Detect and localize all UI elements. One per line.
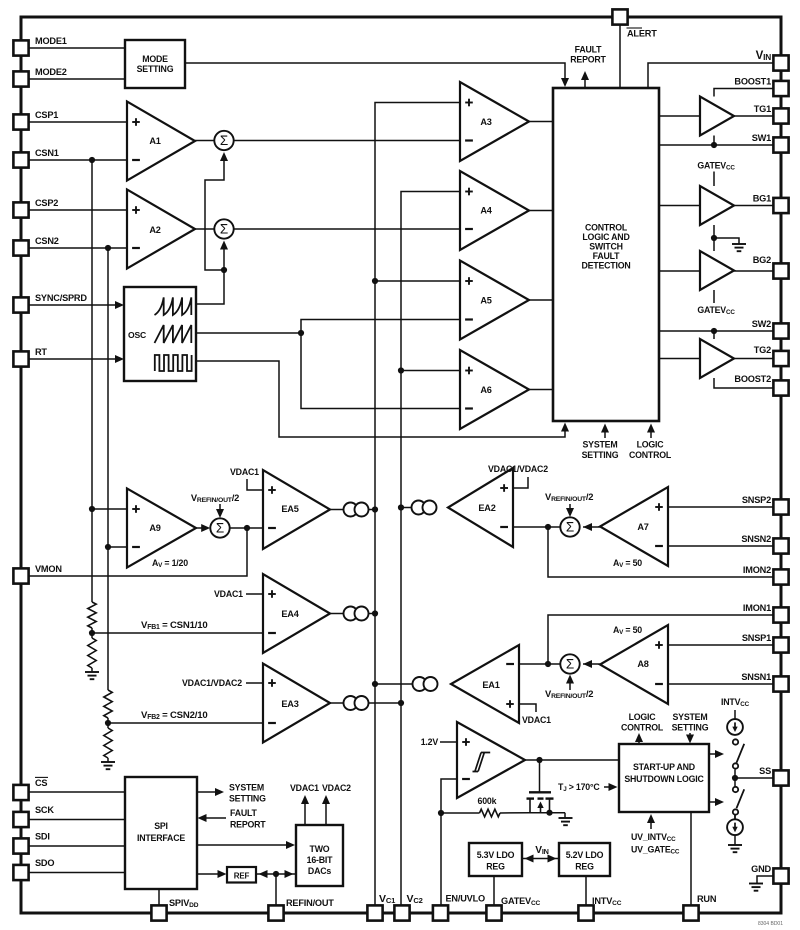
svg-text:AV = 50: AV = 50	[613, 558, 642, 569]
block MODE SETTING	[125, 40, 185, 88]
wire TG2 out	[734, 358, 773, 360]
svg-text:EA5: EA5	[281, 504, 298, 514]
pin SNSP1	[773, 637, 788, 652]
wire vref arrow into S9	[219, 504, 221, 515]
pin SNSN2	[773, 538, 788, 553]
wire VFB1 to EA4 -	[92, 632, 263, 634]
wire EA2 to VC2	[401, 507, 412, 509]
wire arrow into S2	[223, 243, 225, 270]
wire REF to DACs bidirectional	[256, 873, 296, 875]
wire SPIVDD	[158, 889, 160, 905]
wire to ground	[91, 668, 93, 672]
svg-text:AV = 50: AV = 50	[613, 625, 642, 636]
ground gate drivers	[732, 243, 746, 245]
gate driver TG1	[700, 97, 734, 136]
pin SS	[773, 770, 788, 785]
wire CSP1 to A1 +	[28, 121, 127, 123]
svg-text:A6: A6	[480, 385, 491, 395]
wire intvcc stem	[734, 710, 736, 719]
pin CSN1	[13, 152, 28, 167]
svg-text:EN/UVLO: EN/UVLO	[446, 894, 485, 904]
oscillator OSC box	[124, 287, 196, 381]
summer S7	[560, 517, 579, 536]
node REFIN/OUT junction	[273, 871, 279, 877]
wire start-up to SS switch top	[709, 753, 721, 755]
svg-text:A2: A2	[149, 225, 160, 235]
pin BG1	[773, 198, 788, 213]
wire VMON feedback to A9 summing node	[28, 528, 247, 576]
svg-text:5.3V LDO: 5.3V LDO	[477, 850, 515, 860]
wire RUN to start-up logic	[690, 812, 692, 905]
gm output stage EA3	[344, 696, 358, 710]
node ramp feedback junction	[221, 267, 227, 273]
wire REFIN/OUT to pin	[275, 874, 277, 905]
svg-text:AV = 1/20: AV = 1/20	[152, 558, 188, 569]
wire SNSP1 to A8 +	[668, 644, 773, 646]
current source SS charge	[727, 719, 743, 735]
svg-text:INTERFACE: INTERFACE	[137, 833, 185, 843]
wire EA5 out	[330, 509, 344, 511]
svg-text:IMON2: IMON2	[743, 565, 771, 575]
switch SS charge	[733, 739, 738, 744]
svg-text:CSN1: CSN1	[35, 148, 59, 158]
node SW2 junction	[711, 328, 717, 334]
wire A4 out	[529, 210, 553, 212]
error amp EA4	[263, 574, 330, 653]
wire SPI to REF	[197, 873, 224, 875]
hysteresis symbol	[473, 753, 491, 772]
svg-text:SCK: SCK	[35, 805, 54, 815]
node SS junction	[732, 775, 738, 781]
svg-text:CONTROL: CONTROL	[621, 723, 664, 733]
error amp EA3	[263, 664, 330, 743]
wire A5 out	[529, 299, 553, 301]
ground SS discharge	[728, 844, 742, 846]
wire VDAC2 arrow up	[325, 798, 327, 825]
svg-text:FAULT: FAULT	[593, 251, 621, 261]
wire SS to pin	[735, 777, 773, 779]
wire MODE2 to mode setting box	[28, 78, 125, 80]
node ramp2 junction	[298, 330, 304, 336]
wire TG1 driver bottom to SW1	[713, 136, 715, 146]
svg-text:CONTROL: CONTROL	[629, 450, 672, 460]
wire logic control arrow	[650, 426, 652, 438]
EA1 input signs	[506, 663, 514, 665]
ground MOSFET	[559, 817, 573, 819]
svg-text:EA1: EA1	[482, 680, 499, 690]
svg-text:TG2: TG2	[754, 345, 771, 355]
svg-text:GND: GND	[751, 864, 771, 874]
gm output stage EA4	[344, 607, 358, 621]
wire S2 out to A4 -	[234, 228, 460, 230]
wire VDAC1 arrow up	[304, 798, 306, 825]
pin CSN2	[13, 240, 28, 255]
wire control to BG2 driver	[659, 270, 700, 272]
svg-text:A1: A1	[149, 136, 160, 146]
sense amp A7	[600, 487, 668, 566]
svg-text:RUN: RUN	[697, 894, 717, 904]
wire CSP2 to A2 +	[28, 209, 127, 211]
wire A9 + input	[92, 508, 127, 510]
wire LDO bidirectional	[522, 858, 559, 860]
wire mode setting to control logic	[185, 63, 565, 84]
gm output stage EA2	[412, 501, 426, 515]
wire comparator out to start-up logic	[525, 759, 619, 761]
error amp EA1	[451, 645, 519, 723]
wire A3 out	[529, 121, 553, 123]
svg-text:SDO: SDO	[35, 858, 54, 868]
wire GATEVCC to pin	[493, 876, 495, 905]
svg-text:5.2V LDO: 5.2V LDO	[566, 850, 604, 860]
wire MOSFET source to ground	[530, 812, 565, 814]
wire SYNC/SPRD to OSC	[28, 304, 121, 306]
svg-text:LOGIC: LOGIC	[637, 440, 665, 450]
wire ground stem	[564, 813, 566, 818]
pin MODE2	[13, 71, 28, 86]
pin TG2	[773, 351, 788, 366]
pin BOOST1	[773, 81, 788, 96]
svg-text:CONTROL: CONTROL	[585, 223, 628, 233]
wire IMON1 feedback	[548, 615, 773, 664]
svg-text:A5: A5	[480, 296, 491, 306]
node comparator out junction	[536, 757, 542, 763]
wire control to TG2 driver	[659, 358, 700, 360]
wire to ground	[734, 835, 736, 845]
pin SNSP2	[773, 499, 788, 514]
pin INTVCC	[578, 905, 593, 920]
svg-text:MODE: MODE	[142, 54, 168, 64]
wire SW1	[659, 144, 773, 146]
svg-text:SW2: SW2	[752, 319, 771, 329]
node EA5 - summing junction	[244, 525, 250, 531]
summer S1	[214, 131, 233, 150]
wire ALERT to control logic	[619, 24, 621, 88]
wire system setting out	[197, 791, 221, 793]
pin SW1	[773, 137, 788, 152]
error amp EA2	[448, 468, 513, 547]
wire VDAC to EA3 +	[246, 682, 263, 684]
gate driver BG1	[700, 186, 734, 225]
svg-text:ALERT: ALERT	[627, 29, 657, 39]
wire CSN2 sense vertical	[107, 248, 109, 690]
svg-text:A4: A4	[480, 206, 492, 216]
wire EN/UVLO to pin	[440, 813, 442, 905]
pin RUN	[683, 905, 698, 920]
svg-text:CSP1: CSP1	[35, 110, 58, 120]
svg-text:SNSP2: SNSP2	[742, 495, 771, 505]
wire VDAC1 to EA5 +	[247, 479, 263, 490]
net VC1 vertical	[375, 103, 460, 906]
wire SPI to DACs	[197, 844, 292, 846]
wire A7 out to S7	[583, 526, 600, 528]
svg-text:REFIN/OUT: REFIN/OUT	[286, 898, 334, 908]
block 5.2V LDO REG	[559, 843, 610, 876]
pin VC1	[367, 905, 382, 920]
wire vref arrow into S8	[569, 677, 571, 690]
svg-text:8304 BD01: 8304 BD01	[758, 921, 783, 927]
pin ALERT	[612, 9, 627, 24]
wire BOOST1	[714, 89, 773, 97]
wire to driver ground	[714, 238, 739, 244]
svg-text:SNSN2: SNSN2	[741, 534, 771, 544]
wire SW2 to TG2 driver	[713, 331, 715, 339]
node EA5-VC1	[372, 506, 378, 512]
wire BOOST2	[714, 378, 773, 388]
wire fault report in	[200, 817, 226, 819]
node EA1-VC1	[372, 681, 378, 687]
svg-text:OSC: OSC	[128, 330, 146, 340]
pin SDI	[13, 838, 28, 853]
summer S2	[214, 219, 233, 238]
svg-text:SYSTEM: SYSTEM	[583, 440, 618, 450]
node CSN2 junction	[105, 245, 111, 251]
svg-text:SETTING: SETTING	[582, 450, 619, 460]
wire A9 out to summer S9	[196, 527, 207, 529]
comparator A3	[460, 82, 529, 161]
wire ramp to S1	[205, 155, 224, 270]
wire A1 out to summer S1	[195, 140, 215, 142]
svg-text:EA4: EA4	[281, 609, 299, 619]
wire OSC ramp2 out	[196, 332, 301, 334]
svg-text:SETTING: SETTING	[672, 723, 709, 733]
wire EA2 - line to summer S7	[513, 526, 560, 528]
node CSN1 junction	[89, 157, 95, 163]
pin GATEVCC	[486, 905, 501, 920]
comparator A5	[460, 261, 529, 340]
gate driver TG2	[700, 339, 734, 378]
block 5.3V LDO REG	[469, 843, 522, 876]
pin SW2	[773, 323, 788, 338]
wire 1.2V to comparator +	[440, 741, 457, 743]
svg-text:REG: REG	[486, 862, 505, 872]
pin SPIVDD	[151, 905, 166, 920]
svg-text:REPORT: REPORT	[570, 55, 606, 65]
node EA3-VC2	[398, 700, 404, 706]
wire divider mid	[107, 718, 109, 728]
pin BOOST2	[773, 380, 788, 395]
svg-text:SDI: SDI	[35, 832, 50, 842]
pin CS	[13, 785, 28, 800]
svg-text:SS: SS	[759, 766, 771, 776]
svg-text:BOOST1: BOOST1	[734, 77, 771, 87]
wire VC2 to A6 +	[401, 370, 460, 372]
wire to ground	[107, 758, 109, 762]
svg-text:VMON: VMON	[35, 564, 62, 574]
svg-text:A9: A9	[149, 523, 160, 533]
ground CSN2 divider	[101, 761, 115, 763]
switch SS discharge	[733, 787, 738, 792]
svg-text:RT: RT	[35, 347, 47, 357]
wire comparator - feedback	[441, 779, 457, 813]
node SW1 junction	[711, 142, 717, 148]
wire MODE1 to mode setting box	[28, 47, 125, 49]
comparator UVLO	[457, 722, 525, 798]
svg-text:SYNC/SPRD: SYNC/SPRD	[35, 293, 87, 303]
block START-UP AND SHUTDOWN LOGIC	[619, 744, 709, 812]
wire INTVCC to pin	[585, 876, 587, 905]
wire logic control arrow up	[638, 736, 640, 743]
wire EA1 - line to summer S8	[519, 663, 560, 665]
node IMON2 summing junction	[545, 524, 551, 530]
resistor CSN2 divider upper	[104, 690, 112, 718]
pin SDO	[13, 865, 28, 880]
svg-text:REPORT: REPORT	[230, 820, 266, 830]
comparator A4	[460, 171, 529, 250]
wire EA3 out	[330, 702, 344, 704]
svg-text:START-UP AND: START-UP AND	[633, 762, 695, 772]
pin GND	[773, 868, 788, 883]
current source SS discharge	[734, 815, 736, 820]
wire RT to OSC	[28, 358, 121, 360]
svg-text:1.2V: 1.2V	[421, 737, 439, 747]
pin RT	[13, 351, 28, 366]
node VC1 to A5 +	[372, 278, 378, 284]
svg-text:600k: 600k	[478, 796, 497, 806]
wire 600k right lead	[500, 812, 530, 814]
wire EA5 to VC1	[368, 509, 375, 511]
svg-text:VIN: VIN	[535, 845, 549, 856]
svg-text:LOGIC AND: LOGIC AND	[582, 232, 629, 242]
wire 600k left lead	[441, 812, 480, 814]
wire EA3 to VC2	[368, 702, 401, 704]
wire system setting arrow	[604, 426, 606, 438]
svg-text:SNSP1: SNSP1	[742, 633, 771, 643]
svg-text:BG2: BG2	[753, 255, 771, 265]
svg-text:SYSTEM: SYSTEM	[673, 712, 708, 722]
svg-text:TG1: TG1	[754, 104, 771, 114]
svg-text:SYSTEM: SYSTEM	[229, 783, 264, 793]
wire A2 out to summer S2	[195, 228, 215, 230]
wire S1 out to A3 -	[234, 140, 460, 142]
node VFB2 tap	[105, 720, 111, 726]
pin VMON	[13, 568, 28, 583]
node EA4-VC1	[372, 610, 378, 616]
gm output stage EA5	[344, 503, 358, 517]
svg-text:TWO: TWO	[310, 844, 330, 854]
svg-text:CSN2: CSN2	[35, 236, 59, 246]
svg-text:DETECTION: DETECTION	[581, 261, 630, 271]
pin SYNC/SPRD	[13, 297, 28, 312]
wire BG1 to BG2 drivers common	[713, 225, 715, 251]
wire BG1 out	[734, 205, 773, 207]
node A9 + junction	[89, 506, 95, 512]
wire gatevcc to BG1 driver	[713, 172, 715, 187]
pin SCK	[13, 812, 28, 827]
node driver ground junction	[711, 235, 717, 241]
wire EA1 to VC1	[375, 683, 413, 685]
wire start-up to SS switch bottom	[709, 801, 721, 803]
wire GND pin to ground	[757, 876, 773, 883]
wire control to BG1 driver	[659, 205, 700, 207]
EA2 input signs	[500, 487, 508, 489]
svg-text:A8: A8	[637, 659, 648, 669]
svg-text:VDAC1/VDAC2: VDAC1/VDAC2	[488, 464, 548, 474]
ground CSN1 divider	[85, 671, 99, 673]
pin VIN	[773, 55, 788, 70]
resistor CSN1 divider upper	[88, 602, 96, 628]
svg-text:EA2: EA2	[478, 503, 495, 513]
wire IMON2 feedback	[548, 527, 773, 577]
node EA2-VC2	[398, 504, 404, 510]
wire A6 out	[529, 389, 553, 391]
node VFB1 tap	[89, 630, 95, 636]
svg-text:REF: REF	[234, 872, 250, 881]
block SPI INTERFACE	[125, 777, 197, 889]
svg-text:MODE2: MODE2	[35, 67, 67, 77]
wire UV arrow into logic	[650, 817, 652, 829]
wire BG2 out	[734, 270, 773, 272]
wire EA4 to VC1	[368, 613, 375, 615]
svg-text:CSP2: CSP2	[35, 198, 58, 208]
gm output stage EA1	[413, 677, 427, 691]
node MOSFET source junction	[546, 810, 552, 816]
op-amp A2	[127, 190, 195, 269]
svg-text:A3: A3	[480, 117, 491, 127]
ground GND pin	[749, 883, 763, 885]
node VC2 to A6 +	[398, 367, 404, 373]
wire CSN1 to A1 -	[28, 159, 127, 161]
wire switch to SS node	[734, 770, 736, 787]
wire thermal arrow	[604, 786, 615, 788]
wire CSN1 sense vertical	[91, 160, 93, 602]
svg-text:IMON1: IMON1	[743, 603, 771, 613]
wire VIN to control logic	[648, 63, 773, 88]
wire SDO to SPI	[28, 872, 125, 874]
sense amp A8	[600, 625, 668, 704]
svg-text:SNSN1: SNSN1	[741, 672, 771, 682]
wire OSC clock out to control logic	[196, 361, 565, 437]
svg-text:VDAC1: VDAC1	[522, 715, 551, 725]
svg-text:DACs: DACs	[308, 866, 331, 876]
gate driver BG2	[700, 251, 734, 290]
svg-text:SPI: SPI	[154, 821, 168, 831]
block CONTROL LOGIC AND SWITCH FAULT DETECTION	[553, 88, 659, 421]
wire VC1 to A5 +	[375, 280, 460, 282]
net VC2 vertical	[401, 192, 460, 906]
wire S9 out to EA5 -	[230, 527, 264, 529]
wire SCK to SPI	[28, 819, 125, 821]
wire BG2 driver to gatevcc	[713, 290, 715, 303]
waveform square wave	[155, 355, 192, 371]
wire TG1 out	[734, 115, 773, 117]
block REF	[227, 867, 256, 883]
wire divider mid	[91, 628, 93, 638]
svg-text:Σ: Σ	[566, 520, 574, 535]
pin EN/UVLO	[433, 905, 448, 920]
svg-text:FAULT: FAULT	[575, 45, 603, 55]
wire CS to SPI	[28, 791, 125, 793]
svg-text:SWITCH: SWITCH	[589, 242, 623, 252]
svg-text:CS: CS	[35, 778, 47, 788]
svg-text:EA3: EA3	[281, 699, 298, 709]
svg-text:LOGIC: LOGIC	[629, 712, 657, 722]
svg-text:VDAC1: VDAC1	[230, 467, 259, 477]
wire SDI to SPI	[28, 845, 125, 847]
pin BG2	[773, 263, 788, 278]
wire SNSP2 to A7 +	[668, 506, 773, 508]
svg-text:Σ: Σ	[216, 521, 224, 536]
node 600k junction	[438, 810, 444, 816]
wire VDAC1 to EA4 +	[246, 593, 263, 595]
pin CSP1	[13, 114, 28, 129]
summer S8	[560, 654, 579, 673]
wire system setting arrow down	[689, 733, 691, 740]
pin VC2	[394, 905, 409, 920]
svg-text:BG1: BG1	[753, 194, 771, 204]
svg-text:SHUTDOWN LOGIC: SHUTDOWN LOGIC	[624, 774, 704, 784]
wire SNSN2 to A7 -	[668, 545, 773, 547]
svg-text:VDAC2: VDAC2	[322, 783, 351, 793]
